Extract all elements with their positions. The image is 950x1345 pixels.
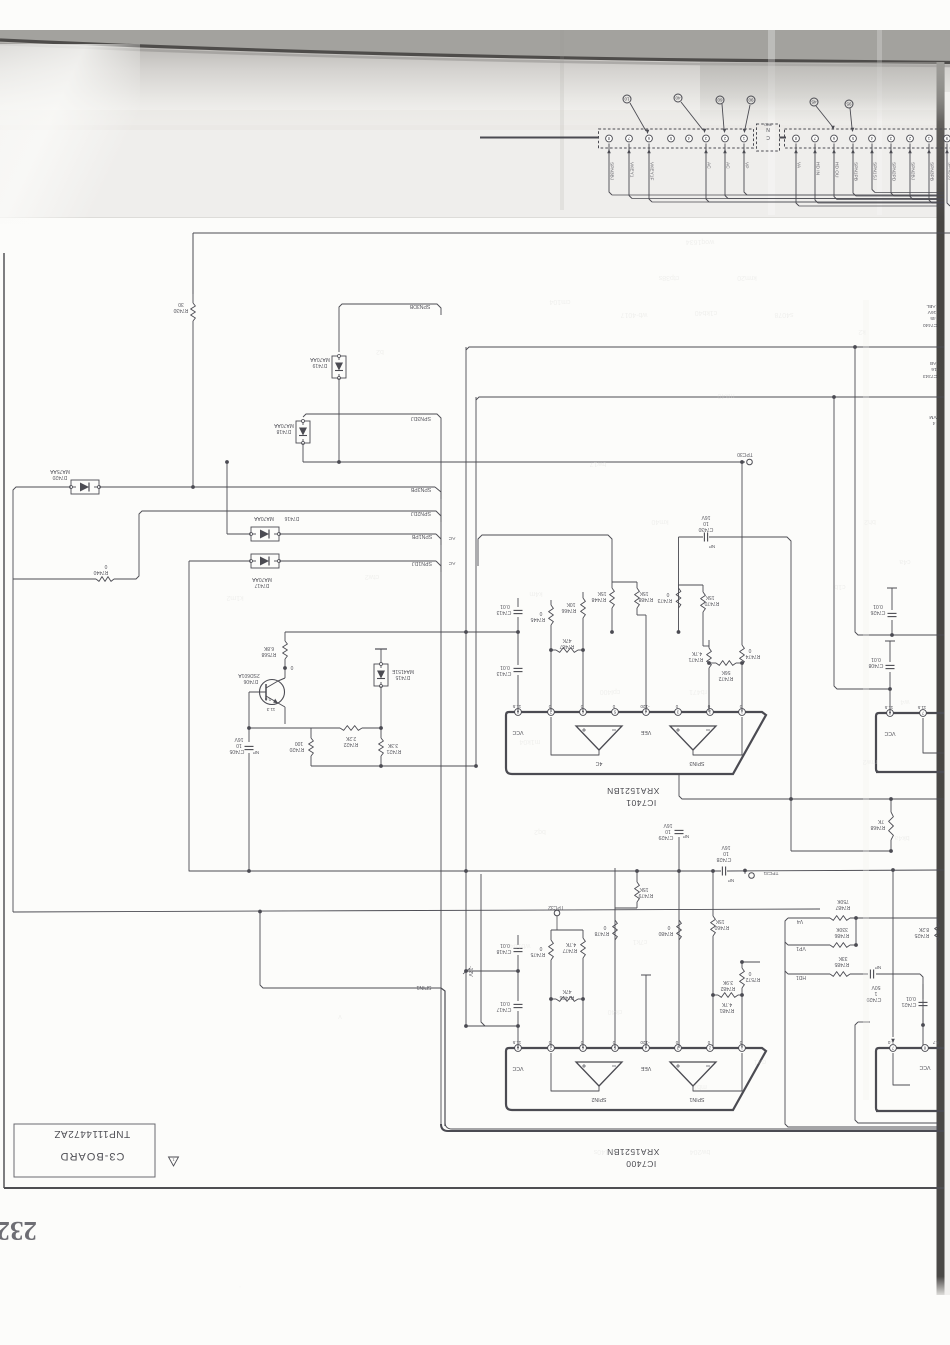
dark page-edge line in top band <box>0 40 950 63</box>
svg-text:15K: 15K <box>715 918 725 924</box>
svg-text:C: C <box>766 134 770 140</box>
connector pin 6 (group B) <box>831 135 838 142</box>
svg-text:0.01: 0.01 <box>906 995 916 1001</box>
capacitor C7405 10 16V NP <box>248 728 250 742</box>
svg-text:bk4a: bk4a <box>894 834 909 841</box>
IC7401 op-amp A output loop <box>551 717 599 755</box>
resistor R7473 0 <box>676 588 681 608</box>
wire C7405 down to TPC31 net <box>248 753 250 871</box>
svg-text:wb104: wb104 <box>510 942 532 949</box>
svg-text:0.6: 0.6 <box>264 697 271 702</box>
svg-text:MA70AA: MA70AA <box>309 356 329 362</box>
svg-text:10: 10 <box>665 828 671 834</box>
svg-text:R7488: R7488 <box>638 596 653 602</box>
svg-text:bq2: bq2 <box>534 828 546 835</box>
svg-text:0.01: 0.01 <box>500 603 510 609</box>
IC7403 pin 7 <box>890 1045 897 1052</box>
right dark scan band <box>937 62 945 1295</box>
svg-text:NP: NP <box>683 834 689 839</box>
wire TPC30 net horizontal <box>302 443 304 462</box>
IC7400 pin 2 <box>707 1045 714 1052</box>
connector pin wire VA <box>796 144 799 207</box>
-12V rail <box>465 871 467 1026</box>
circled wire ref 40 with arrow to pin 3A <box>674 94 682 102</box>
svg-text:2SD601A: 2SD601A <box>238 672 260 678</box>
svg-text:MA70AA: MA70AA <box>253 515 273 521</box>
connector pin 2 (group B) <box>907 135 914 142</box>
resistor R7572 0 <box>741 962 743 968</box>
op-amp IC7402 partial block at right edge <box>876 713 944 772</box>
svg-text:SPN3PB: SPN3PB <box>929 162 935 181</box>
svg-text:mk40: mk40 <box>717 392 734 399</box>
svg-text:NP: NP <box>253 750 259 755</box>
svg-text:750K: 750K <box>837 898 849 904</box>
svg-text:HD OU: HD OU <box>834 162 840 178</box>
svg-text:ABL: ABL <box>926 303 935 309</box>
svg-text:232: 232 <box>0 1216 37 1246</box>
svg-text:R7478: R7478 <box>594 930 609 936</box>
resistor R7445 0 <box>550 600 552 605</box>
svg-text:VM: VM <box>929 414 936 420</box>
connector pin 8 (group B) <box>793 135 800 142</box>
bus vertical W5 left leg <box>475 397 477 766</box>
svg-text:0: 0 <box>675 704 678 709</box>
svg-text:D7416: D7416 <box>284 515 299 521</box>
svg-text:SPN1SJ: SPN1SJ <box>872 162 878 181</box>
svg-text:0: 0 <box>603 924 606 930</box>
svg-text:C7430: C7430 <box>698 526 713 532</box>
wire IC7402 pin8 up <box>889 689 891 713</box>
connector pin wire SPN3PB <box>929 144 932 204</box>
capacitor C7430 10 16V NP <box>679 536 704 538</box>
svg-text:D7420: D7420 <box>52 474 67 480</box>
svg-text:R7572: R7572 <box>745 976 760 982</box>
svg-text:0: 0 <box>539 610 542 616</box>
wire stub CN box to group B <box>780 137 787 139</box>
svg-text:10: 10 <box>624 97 630 102</box>
IC7401 op-amp B output loop <box>693 717 742 755</box>
svg-text:V4: V4 <box>797 918 803 924</box>
test point TPC31 <box>744 871 746 875</box>
svg-text:SPIN1: SPIN1 <box>416 984 431 990</box>
svg-text:c1kb40: c1kb40 <box>695 309 718 316</box>
svg-text:0.01: 0.01 <box>500 942 510 948</box>
svg-text:0.01: 0.01 <box>500 664 510 670</box>
connector pin wire VKEY1 <box>629 144 632 199</box>
svg-text:11.5: 11.5 <box>884 705 893 710</box>
IC7400 pin 8 <box>515 1045 522 1052</box>
svg-text:NP: NP <box>728 878 734 883</box>
svg-text:·: · <box>239 1283 241 1290</box>
wire SPN3PB <box>13 487 71 579</box>
svg-text:D7415: D7415 <box>395 674 410 680</box>
diode D7416 MA70AA on SPN1PB net <box>251 527 279 541</box>
svg-text:SPN1DJ: SPN1DJ <box>412 560 432 566</box>
svg-text:R7448: R7448 <box>591 596 606 602</box>
diode D7418 MA70AA <box>296 421 310 443</box>
resistor R7425 8.2K <box>936 918 938 922</box>
svg-text:0: 0 <box>539 945 542 951</box>
IC7400 pin 6 <box>580 1045 587 1052</box>
svg-text:10: 10 <box>723 850 729 856</box>
svg-text:SPN2BJ: SPN2BJ <box>910 162 916 181</box>
svg-text:krm20: krm20 <box>737 274 757 281</box>
svg-text:R7467: R7467 <box>559 643 574 649</box>
svg-text:11.5: 11.5 <box>512 1040 521 1045</box>
svg-text:R7440: R7440 <box>93 569 108 575</box>
svg-text:MA70AA: MA70AA <box>273 422 293 428</box>
resistor R7487 750K <box>830 916 850 921</box>
svg-text:10K: 10K <box>566 601 576 607</box>
svg-text:IC7400: IC7400 <box>626 1159 656 1169</box>
resistor R7420 100 <box>309 738 314 756</box>
svg-text:4.7K: 4.7K <box>565 941 576 947</box>
svg-text:VA: VA <box>796 162 802 169</box>
wire C7430 down to IC7401 pin3 net <box>678 537 680 632</box>
wire C7429 down to IC7400 pin3 <box>678 837 680 1048</box>
svg-text:bw17: bw17 <box>590 460 607 467</box>
svg-text:rb471: rb471 <box>689 688 707 695</box>
svg-text:C7440: C7440 <box>923 322 937 328</box>
IC7401 pin 1 <box>739 709 746 716</box>
wire C7420 to pin8 of IC7403 <box>920 974 923 1048</box>
svg-text:XRA1521BN: XRA1521BN <box>607 786 660 796</box>
svg-text:VEE: VEE <box>640 1065 651 1071</box>
svg-text:0: 0 <box>666 591 669 597</box>
IC7400 pin 4 <box>643 1045 650 1052</box>
capacitor C7421 0.01 <box>922 992 924 999</box>
capacitor C7420 1 50V NP <box>869 970 871 979</box>
svg-text:c7k1: c7k1 <box>633 938 648 945</box>
connector pin wire SPN2PD <box>891 144 894 197</box>
svg-text:R7430: R7430 <box>173 307 188 313</box>
svg-text:16: 16 <box>931 366 937 372</box>
svg-text:56K: 56K <box>721 669 731 675</box>
bus vertical W4 left leg <box>465 347 467 871</box>
wire pin4 VEE up IC7400 <box>645 975 647 1048</box>
svg-text:VKEY1F: VKEY1F <box>649 162 655 180</box>
IC7400 op-amp B output loop <box>693 1053 742 1091</box>
svg-text:45: 45 <box>811 100 817 105</box>
IC7400 op-amp B triangle <box>670 1062 716 1086</box>
connector pin wire AC <box>706 144 709 203</box>
capacitor C7417 0.01 <box>514 1003 523 1005</box>
wire loop around IC7403 <box>855 1022 938 1123</box>
svg-text:cp140s: cp140s <box>593 1148 616 1155</box>
svg-text:cm104: cm104 <box>549 298 570 305</box>
wire pin3 net down from IC7401 to right rail <box>679 775 944 799</box>
svg-text:cw1: cw1 <box>754 1058 767 1065</box>
svg-text:16V: 16V <box>234 736 244 742</box>
svg-text:33K: 33K <box>838 955 848 961</box>
svg-text:11.3: 11.3 <box>266 707 275 712</box>
IC7401 pin 2 <box>707 709 714 716</box>
IC7400 pin 1 <box>739 1045 746 1052</box>
svg-text:R7473: R7473 <box>657 597 672 603</box>
capacitor C7413 0.01 (a) <box>517 598 519 607</box>
connector pin wire SPN2BJ <box>910 144 913 200</box>
svg-text:MA4151E: MA4151E <box>391 668 414 674</box>
resistor R7421 3.3K <box>379 738 384 756</box>
resistor R7448 15K <box>611 582 613 588</box>
svg-text:HD IN: HD IN <box>815 162 821 176</box>
svg-text:C7418: C7418 <box>496 948 511 954</box>
IC7400 pin 7 <box>548 1045 555 1052</box>
svg-text:m1k04: m1k04 <box>519 738 540 745</box>
svg-text:R7471: R7471 <box>688 656 703 662</box>
svg-text:R7477: R7477 <box>562 947 577 953</box>
svg-text:VCC: VCC <box>919 1064 930 1070</box>
connector pin wire VKEY1F <box>649 144 652 203</box>
connector pin wire SPN3SJ <box>947 144 950 207</box>
diode D7420 MA75AA on SPN3PB net <box>71 480 99 494</box>
svg-text:-120: -120 <box>640 1040 650 1045</box>
wire V4 row <box>785 918 938 1127</box>
safety warning triangle <box>169 1157 179 1166</box>
svg-text:AC: AC <box>706 162 712 169</box>
svg-text:AC: AC <box>448 535 455 541</box>
svg-text:16V: 16V <box>721 844 731 850</box>
svg-text:NP: NP <box>875 965 881 970</box>
connector pin 7 (group A) <box>626 135 633 142</box>
wire R7468 bottom link <box>791 850 891 852</box>
capacitor C7413 0.01 (b) <box>514 667 523 669</box>
resistor R7467 47K <box>556 648 578 653</box>
wire collector net to IC7401 cluster <box>285 631 518 633</box>
svg-text:R7486: R7486 <box>834 932 849 938</box>
connector CN label dashed box <box>757 124 780 151</box>
wire -12V cross links <box>466 970 518 972</box>
IC7402 inner wire <box>923 718 944 753</box>
svg-text:-12V: -12V <box>467 966 473 977</box>
IC7400 pin 5 <box>612 1045 619 1052</box>
wire D7417 left down to TPC31 net <box>188 561 190 868</box>
IC7401 pin 4 <box>643 709 650 716</box>
svg-text:2.2K: 2.2K <box>345 735 356 741</box>
svg-text:c1b: c1b <box>834 583 845 590</box>
connector pin wire SPN1PB <box>853 144 856 197</box>
resistor R7468 7K <box>890 799 892 812</box>
IC7402 pin 8 <box>887 710 894 717</box>
svg-text:C7421: C7421 <box>901 1001 916 1007</box>
svg-text:4.7K: 4.7K <box>691 650 702 656</box>
svg-text:ctw2: ctw2 <box>365 573 380 580</box>
svg-text:SPIN3: SPIN3 <box>689 760 704 766</box>
wire upper net W4 with junction <box>466 347 944 350</box>
wire SPIN1 jog down <box>260 912 441 989</box>
connector pin 3 (group A) <box>703 135 710 142</box>
svg-text:w4: w4 <box>900 698 910 705</box>
resistor R7470 15K <box>702 585 704 592</box>
svg-text:16V: 16V <box>663 822 673 828</box>
resistor R7478 0 <box>613 920 618 940</box>
svg-text:R7474: R7474 <box>745 653 760 659</box>
svg-text:C7429: C7429 <box>658 834 673 840</box>
circled wire ref 10 with arrow to pin 6A <box>623 95 631 103</box>
resistor R7477 4.7K <box>582 930 584 938</box>
zener diode D7415 MA4151E <box>380 649 382 664</box>
svg-text:3.3K: 3.3K <box>387 742 398 748</box>
svg-text:R7481: R7481 <box>719 1007 734 1013</box>
svg-text:45: 45 <box>930 315 936 321</box>
svg-text:AC: AC <box>725 162 731 169</box>
transistor D7406 2SD601A <box>260 680 285 705</box>
svg-text:C7413: C7413 <box>496 670 511 676</box>
wire cluster link to W5 rail <box>478 535 612 582</box>
svg-text:b2: b2 <box>376 348 384 355</box>
top scan shadow band <box>0 30 950 44</box>
svg-text:SPIN2: SPIN2 <box>591 1096 606 1102</box>
svg-text:R7568: R7568 <box>261 651 276 657</box>
resistor R7486 330K <box>830 943 850 948</box>
svg-text:50V: 50V <box>871 984 881 990</box>
svg-text:R7476: R7476 <box>559 994 574 1000</box>
svg-text:11.5: 11.5 <box>512 704 521 709</box>
svg-text:C7343: C7343 <box>923 373 937 379</box>
op-amp IC7403 partial block at right edge <box>876 1048 944 1111</box>
svg-text:C7405: C7405 <box>229 748 244 754</box>
wire long SPIN0 net into pin7 of IC7403 <box>892 870 894 1037</box>
IC7401 op-amp A triangle <box>576 726 622 750</box>
connector pin wire HD IN <box>815 144 818 204</box>
svg-text:MA75AA: MA75AA <box>49 468 69 474</box>
connector pin 2 (group A) <box>722 135 729 142</box>
resistor R7472 56K <box>716 661 736 666</box>
svg-text:D7419: D7419 <box>312 362 327 368</box>
svg-text:0: 0 <box>748 647 751 653</box>
wire pin5 net up to C7428 row <box>614 868 616 1048</box>
svg-text:0: 0 <box>707 1040 710 1045</box>
wire V4-VP1 link <box>855 918 857 945</box>
svg-text:bw204: bw204 <box>690 1148 711 1155</box>
wire base row <box>249 727 311 729</box>
svg-text:k1m2: k1m2 <box>226 594 243 601</box>
svg-text:95: 95 <box>846 102 852 107</box>
circled wire ref 45 with arrow to pin 6B <box>810 98 818 106</box>
svg-text:1.0: 1.0 <box>887 1040 894 1045</box>
svg-text:15K: 15K <box>639 590 649 596</box>
svg-text:0: 0 <box>104 563 107 569</box>
wire bottom row to bus <box>311 765 476 767</box>
svg-text:R7480: R7480 <box>658 930 673 936</box>
svg-text:D7418: D7418 <box>276 428 291 434</box>
svg-text:30: 30 <box>178 301 184 307</box>
svg-text:km40: km40 <box>651 518 668 525</box>
svg-text:SPN2DJ: SPN2DJ <box>411 510 431 516</box>
wire vertical junction at pin3-row <box>790 799 792 851</box>
diode D7417 MA70AA on SPN1DJ net <box>251 554 279 568</box>
circled wire ref 90 with arrow to pin 1A <box>747 96 755 104</box>
IC7403 pin 8 <box>922 1045 929 1052</box>
svg-text:TPC32: TPC32 <box>548 904 564 910</box>
wire TPC32 rail <box>551 929 583 931</box>
svg-text:10: 10 <box>236 742 242 748</box>
IC7400 pin 3 <box>675 1045 682 1052</box>
connector pin wire AC <box>725 144 728 199</box>
svg-text:k4m: k4m <box>529 590 542 597</box>
connector pin 3 (group B) <box>888 135 895 142</box>
svg-text:15K: 15K <box>597 590 607 596</box>
svg-text:R7421: R7421 <box>386 748 401 754</box>
svg-text:16V: 16V <box>701 514 711 520</box>
IC7401 pin 8 <box>515 709 522 716</box>
wire base of D7406 down <box>248 692 250 728</box>
resistor R7460 15K <box>712 908 714 916</box>
connector dashed box group B <box>785 129 950 148</box>
svg-text:D7417: D7417 <box>254 582 269 588</box>
svg-text:0.01: 0.01 <box>871 656 881 662</box>
svg-text:C3-BOARD: C3-BOARD <box>60 1150 125 1162</box>
resistor R7476 47K <box>556 997 578 1002</box>
capacitor C7426 0.01 <box>891 588 893 610</box>
resistor R7481 4.7K / R7482 3.9K <box>718 993 738 998</box>
op-amp IC IC7401 XRA1521BN block outline <box>506 712 766 774</box>
test point TPC30 <box>740 460 744 464</box>
svg-text:C7408: C7408 <box>868 662 883 668</box>
svg-text:mb1: mb1 <box>693 1083 707 1090</box>
svg-text:wb-4017: wb-4017 <box>620 311 648 318</box>
wire SPIN1 long net <box>12 579 14 912</box>
svg-text:VCC: VCC <box>512 1065 523 1071</box>
svg-text:0: 0 <box>675 1040 678 1045</box>
IC7401 pin 7 <box>548 709 555 716</box>
svg-text:VCC: VCC <box>512 729 523 735</box>
svg-text:8.7: 8.7 <box>932 1040 939 1045</box>
svg-text:7K: 7K <box>877 818 884 824</box>
svg-text:woq1634: woq1634 <box>686 238 716 245</box>
wire SPN1PB <box>226 462 228 534</box>
svg-text:SPN1PB: SPN1PB <box>411 533 432 539</box>
svg-text:R7420: R7420 <box>289 746 304 752</box>
wire TPC30 down to IC7401 pin1 <box>741 462 743 645</box>
svg-text:ctp38s: ctp38s <box>658 274 679 281</box>
svg-text:R7470: R7470 <box>704 600 719 606</box>
svg-text:c4a: c4a <box>899 558 910 565</box>
svg-text:SPN3BJ: SPN3BJ <box>609 162 615 181</box>
svg-text:R7487: R7487 <box>835 904 850 910</box>
connector pin wire HD OU <box>834 144 837 200</box>
svg-text:D7406: D7406 <box>243 678 258 684</box>
svg-text:-120: -120 <box>640 704 650 709</box>
resistor R7422 2.2K <box>311 727 340 729</box>
svg-text:R7485: R7485 <box>834 961 849 967</box>
svg-text:R7460: R7460 <box>714 924 729 930</box>
wire VP1 row <box>785 942 788 945</box>
IC7400 op-amp A triangle <box>576 1062 622 1086</box>
svg-text:TPC30: TPC30 <box>737 451 753 457</box>
connector pin wire VP <box>744 144 747 196</box>
connector pin wire SPN3BJ <box>609 144 612 196</box>
connector pin 1 (group A) <box>741 135 748 142</box>
svg-text:40: 40 <box>675 96 681 101</box>
IC7401 pin 5 <box>612 709 619 716</box>
wire upper net W5 with junction <box>476 397 944 400</box>
connector pin 1 (group B) <box>926 135 933 142</box>
svg-text:cpl400: cpl400 <box>600 688 621 695</box>
resistor R7488 15K <box>636 582 638 588</box>
IC7401 pin 6 <box>580 709 587 716</box>
svg-text:R7422: R7422 <box>343 741 358 747</box>
svg-text:330K: 330K <box>836 926 848 932</box>
svg-text:C7417: C7417 <box>496 1006 511 1012</box>
svg-text:R7472: R7472 <box>718 675 733 681</box>
wire HD1 row <box>785 971 788 974</box>
svg-text:10: 10 <box>703 520 709 526</box>
svg-text:R7475: R7475 <box>530 951 545 957</box>
wire D7419 to TPC30 net <box>338 378 340 462</box>
wire pin4 VEE up <box>645 615 647 712</box>
IC7401 pin 3 <box>675 709 682 716</box>
